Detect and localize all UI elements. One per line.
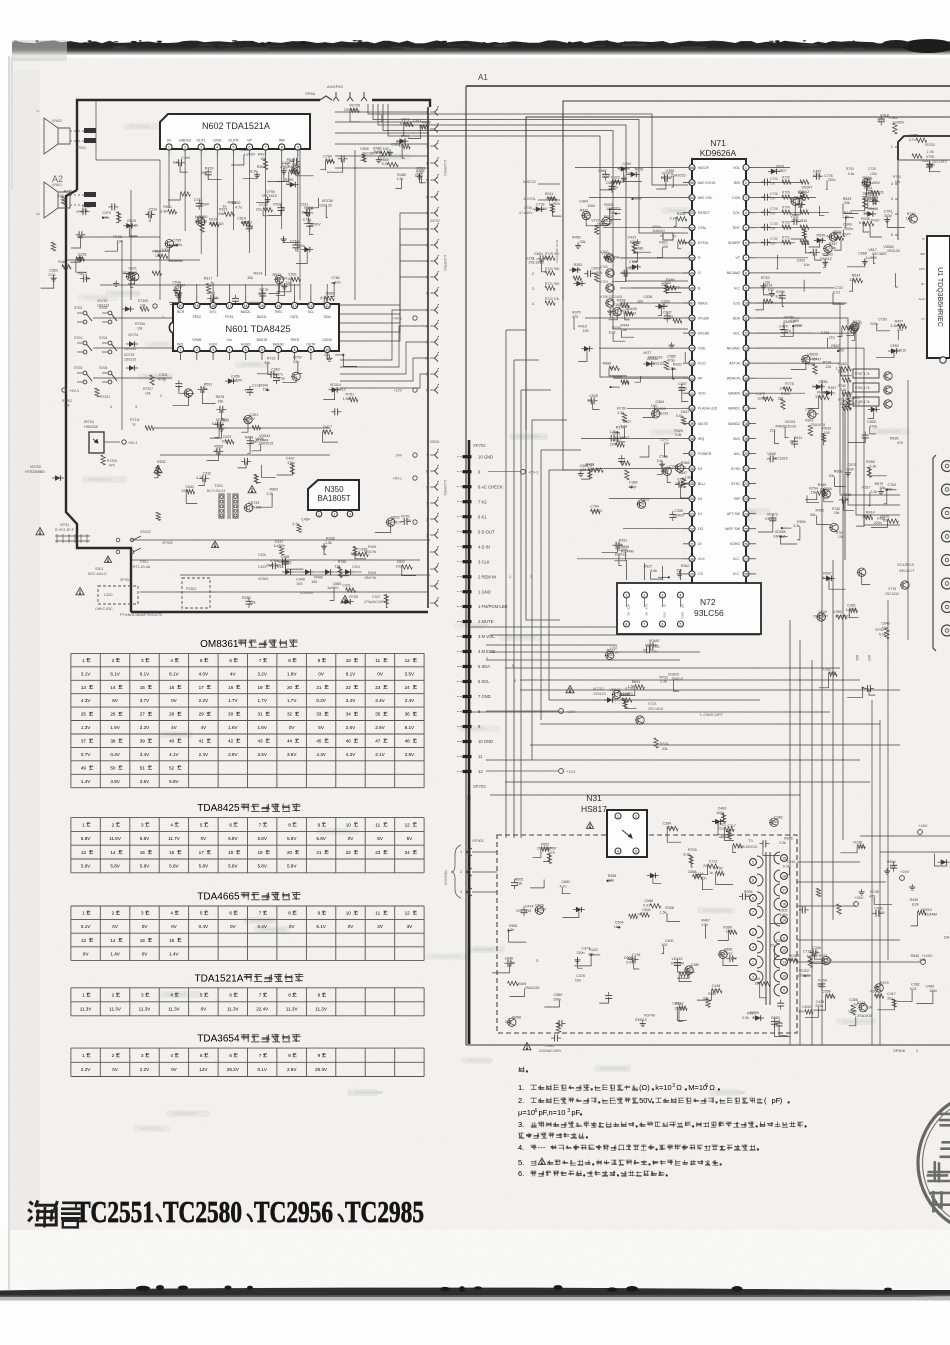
svg-text:R366: R366 — [681, 461, 690, 465]
svg-text:VD0064: VD0064 — [300, 591, 313, 595]
svg-text:R703: R703 — [819, 954, 828, 958]
svg-text:16: 16 — [169, 850, 175, 855]
svg-text:R792: R792 — [876, 628, 885, 632]
svg-text:20: 20 — [287, 850, 293, 855]
svg-text:R484: R484 — [58, 260, 67, 264]
svg-text:M/ECD: M/ECD — [523, 179, 536, 184]
svg-text:470p: 470p — [277, 377, 285, 381]
svg-text:5V: 5V — [377, 836, 384, 841]
svg-text:100n: 100n — [870, 172, 878, 176]
svg-text:R392: R392 — [798, 191, 807, 195]
svg-text:4.7u: 4.7u — [560, 884, 567, 888]
svg-text:5: 5 — [426, 373, 428, 377]
svg-text:10n: 10n — [804, 263, 810, 267]
svg-text:C667: C667 — [598, 169, 607, 173]
svg-text:R450: R450 — [572, 236, 581, 240]
svg-text:17: 17 — [228, 304, 232, 308]
svg-text:EM01Z: EM01Z — [820, 257, 832, 261]
svg-text:5.6k: 5.6k — [623, 380, 630, 384]
svg-text:1u/50V: 1u/50V — [893, 121, 905, 125]
svg-text:R718 390 VD701: R718 390 VD701 — [555, 240, 559, 263]
svg-text:33k: 33k — [218, 212, 224, 216]
svg-text:K1: K1 — [698, 512, 702, 516]
svg-text:7: 7 — [745, 256, 747, 260]
svg-text:C411: C411 — [342, 583, 350, 587]
svg-text:C575: C575 — [848, 463, 857, 467]
svg-text:22k: 22k — [826, 365, 832, 369]
svg-text:KDC-A04-G: KDC-A04-G — [88, 572, 107, 576]
svg-text:C458: C458 — [281, 555, 290, 559]
svg-text:C483: C483 — [718, 807, 727, 811]
svg-text:20: 20 — [179, 304, 183, 308]
svg-text:22k: 22k — [626, 172, 632, 176]
svg-text:C470: C470 — [779, 324, 788, 328]
svg-text:1.5k: 1.5k — [829, 246, 836, 250]
svg-text:4: 4 — [680, 594, 682, 598]
svg-text:8: 8 — [752, 879, 754, 883]
svg-text:1 GND: 1 GND — [478, 589, 491, 594]
svg-text:TRER: TRER — [290, 338, 300, 342]
svg-text:KS601: KS601 — [52, 183, 62, 187]
svg-text:15: 15 — [140, 938, 146, 943]
svg-text:1u/50V: 1u/50V — [244, 417, 256, 421]
svg-text:BCY=03-04: BCY=03-04 — [207, 489, 225, 493]
svg-text:+12V: +12V — [394, 389, 403, 393]
svg-text:2SC3807: 2SC3807 — [835, 615, 850, 619]
svg-text:11.3V: 11.3V — [315, 1007, 328, 1012]
svg-text:EXTAL: EXTAL — [698, 241, 709, 245]
svg-text:1u/50V: 1u/50V — [673, 514, 685, 518]
svg-text:470p: 470p — [287, 461, 295, 465]
svg-text:R7201: R7201 — [100, 395, 110, 399]
svg-text:C719: C719 — [867, 195, 876, 199]
svg-text:VD731: VD731 — [128, 333, 138, 337]
svg-text:2SA1015: 2SA1015 — [209, 222, 224, 226]
svg-text:2: 2 — [486, 657, 488, 661]
svg-text:15: 15 — [140, 685, 146, 690]
svg-text:C672: C672 — [660, 437, 669, 441]
svg-text:9: 9 — [318, 911, 321, 916]
svg-text:18: 18 — [782, 875, 786, 879]
svg-text:8: 8 — [281, 146, 283, 150]
svg-text:26: 26 — [110, 712, 116, 717]
svg-text:PTH451C4636F7ROO270: PTH451C4636F7ROO270 — [120, 613, 162, 617]
svg-text:220n: 220n — [815, 1004, 823, 1008]
svg-text:3: 3 — [460, 890, 462, 894]
svg-text:40: 40 — [690, 407, 694, 411]
svg-text:EM01Z: EM01Z — [774, 534, 786, 538]
svg-text:13: 13 — [293, 304, 297, 308]
svg-text:R621: R621 — [659, 240, 668, 244]
svg-text:51: 51 — [140, 765, 146, 770]
svg-text:TC2985: TC2985 — [345, 1194, 424, 1229]
svg-text:3.1V: 3.1V — [81, 671, 91, 676]
svg-text:Ω: Ω — [676, 1083, 682, 1092]
svg-text:C564: C564 — [580, 464, 589, 468]
svg-text:0.4V: 0.4V — [110, 752, 120, 757]
svg-text:C400: C400 — [665, 939, 674, 943]
svg-text:R532: R532 — [273, 202, 282, 206]
svg-text:R400: R400 — [314, 575, 323, 579]
svg-text:BAND2: BAND2 — [728, 422, 740, 426]
svg-text:R755: R755 — [612, 326, 621, 330]
svg-text:NC: NC — [645, 612, 649, 616]
svg-text:11: 11 — [375, 658, 380, 663]
svg-text:43: 43 — [690, 362, 694, 366]
svg-text:1u/50V: 1u/50V — [309, 222, 321, 226]
svg-text:2SA1015: 2SA1015 — [266, 563, 281, 567]
svg-text:+9V-1: +9V-1 — [128, 441, 138, 445]
svg-text:2 MUTE: 2 MUTE — [478, 619, 494, 624]
svg-text:13: 13 — [81, 850, 87, 855]
svg-text:6.: 6. — [518, 1169, 524, 1178]
svg-text:15k: 15k — [874, 986, 880, 990]
svg-text:3: 3 — [141, 658, 144, 663]
svg-text:2.6V: 2.6V — [287, 1067, 297, 1072]
svg-text:R348: R348 — [843, 493, 852, 497]
svg-text:R376: R376 — [784, 837, 793, 841]
svg-text:R529: R529 — [127, 219, 136, 223]
svg-text:7: 7 — [277, 348, 279, 352]
svg-text:R687: R687 — [708, 992, 717, 996]
svg-text:31: 31 — [257, 712, 263, 717]
svg-text:23: 23 — [375, 850, 381, 855]
svg-text:3: 3 — [141, 822, 144, 827]
svg-text:R595: R595 — [890, 437, 899, 441]
svg-text:R397: R397 — [828, 386, 837, 390]
svg-text:8: 8 — [288, 822, 291, 827]
svg-text:4V: 4V — [201, 725, 208, 730]
svg-text:POWER: POWER — [698, 452, 712, 456]
svg-text:VP: VP — [247, 139, 252, 143]
svg-text:8: 8 — [426, 470, 428, 474]
svg-text:SOURCE: SOURCE — [897, 562, 914, 567]
svg-text:6 SCL: 6 SCL — [478, 679, 490, 684]
svg-text:V617: V617 — [868, 248, 876, 252]
svg-text:1: 1 — [426, 502, 428, 506]
svg-text:C438: C438 — [644, 295, 653, 299]
svg-text:100: 100 — [770, 212, 776, 216]
svg-text:1R6/7W: 1R6/7W — [364, 576, 377, 580]
svg-text:S704: S704 — [99, 336, 107, 340]
svg-text:2: 2 — [334, 513, 336, 517]
svg-text:1k: 1k — [210, 281, 214, 285]
svg-text:22: 22 — [346, 850, 352, 855]
svg-text:C519: C519 — [149, 208, 158, 212]
svg-text:10n: 10n — [351, 552, 357, 556]
svg-text:4.7u: 4.7u — [277, 560, 284, 564]
svg-text:VD438: VD438 — [626, 307, 637, 311]
svg-text:SDA: SDA — [324, 315, 332, 319]
svg-text:10n: 10n — [268, 372, 274, 376]
svg-text:6: 6 — [752, 897, 754, 901]
svg-text:BAS2L: BAS2L — [241, 310, 251, 314]
svg-text:AFT SW: AFT SW — [727, 512, 741, 516]
svg-text:VD730: VD730 — [97, 299, 107, 303]
svg-text:100n: 100n — [679, 387, 687, 391]
svg-text:220n: 220n — [577, 951, 585, 955]
svg-text:2SA1015: 2SA1015 — [857, 1014, 872, 1018]
svg-text:3.3k: 3.3k — [870, 465, 877, 469]
svg-text:1k: 1k — [609, 366, 613, 370]
svg-text:R370: R370 — [572, 311, 581, 315]
svg-text:1.6V: 1.6V — [110, 725, 120, 730]
svg-text:1u/50V: 1u/50V — [591, 509, 603, 513]
svg-text:18: 18 — [228, 685, 234, 690]
svg-text:A.U/XP603: A.U/XP603 — [443, 255, 447, 271]
svg-text:R391: R391 — [619, 538, 628, 542]
svg-text:1.5k: 1.5k — [684, 475, 691, 479]
svg-text:1u/50V: 1u/50V — [812, 384, 824, 388]
svg-text:11: 11 — [375, 911, 380, 916]
svg-text:2: 2 — [112, 658, 115, 663]
svg-text:AV1: AV1 — [734, 452, 740, 456]
svg-text:JA660A1: JA660A1 — [652, 229, 665, 233]
svg-text:2: 2 — [112, 822, 115, 827]
svg-text:V505: V505 — [360, 147, 368, 151]
svg-text:47: 47 — [375, 739, 381, 744]
svg-text:1.0k: 1.0k — [926, 149, 934, 154]
svg-text:3: 3 — [891, 197, 893, 201]
svg-text:1u/50V: 1u/50V — [535, 908, 547, 912]
svg-text:5.6k: 5.6k — [650, 569, 657, 573]
svg-text:30: 30 — [228, 712, 234, 717]
svg-text:10: 10 — [346, 911, 352, 916]
svg-text:7: 7 — [259, 1053, 262, 1058]
svg-text:R542: R542 — [287, 158, 296, 162]
svg-text:+9V-1: +9V-1 — [850, 402, 860, 406]
svg-text:6: 6 — [426, 389, 428, 393]
svg-text:EM01Z: EM01Z — [661, 176, 673, 180]
svg-text:5: 5 — [200, 658, 203, 663]
svg-text:16: 16 — [782, 903, 786, 907]
svg-text:VSS: VSS — [698, 347, 706, 351]
svg-text:+24V: +24V — [566, 709, 576, 714]
svg-text:+9V-1: +9V-1 — [69, 389, 79, 393]
svg-text:C581: C581 — [889, 116, 898, 120]
svg-text:8: 8 — [288, 993, 291, 998]
svg-text:50: 50 — [690, 256, 694, 260]
svg-text:S.ID: S.ID — [733, 301, 740, 305]
svg-text:C729: C729 — [303, 218, 312, 222]
svg-text:39: 39 — [690, 422, 694, 426]
svg-text:52: 52 — [690, 226, 694, 230]
svg-text:24: 24 — [405, 685, 411, 690]
svg-text:4: 4 — [170, 822, 173, 827]
svg-text:220n: 220n — [794, 324, 802, 328]
svg-text:9: 9 — [745, 287, 747, 291]
svg-text:5 SDA: 5 SDA — [478, 664, 490, 669]
svg-text:C504: C504 — [615, 921, 624, 925]
svg-text:A1: A1 — [478, 73, 488, 82]
svg-text:+26V: +26V — [854, 895, 864, 900]
svg-text:C301: C301 — [159, 373, 168, 377]
svg-text:5: 5 — [245, 348, 247, 352]
svg-text:12: 12 — [405, 911, 411, 916]
svg-text:C728: C728 — [770, 207, 778, 211]
svg-text:100: 100 — [770, 182, 776, 186]
svg-text:R310: R310 — [673, 362, 682, 366]
svg-text:3: 3 — [141, 911, 144, 916]
svg-text:C682: C682 — [562, 880, 571, 884]
svg-text:C603: C603 — [591, 266, 600, 270]
svg-text:10k: 10k — [753, 1016, 759, 1020]
svg-text:C724: C724 — [770, 177, 778, 181]
svg-text:C457: C457 — [678, 382, 687, 386]
svg-text:C323: C323 — [611, 175, 620, 179]
svg-text:R411: R411 — [545, 192, 553, 196]
svg-text:V344: V344 — [662, 281, 670, 285]
svg-text:T3: T3 — [748, 838, 753, 843]
svg-text:8.2k: 8.2k — [606, 219, 613, 223]
svg-text:100n: 100n — [553, 997, 561, 1001]
svg-text:3.4V: 3.4V — [375, 698, 385, 703]
svg-text:VT19: VT19 — [888, 587, 896, 591]
svg-text:0V: 0V — [318, 671, 325, 676]
svg-text:0V: 0V — [289, 924, 296, 929]
svg-text:RF: RF — [698, 377, 703, 381]
svg-text:V702: V702 — [600, 250, 608, 254]
svg-text:2SC3807: 2SC3807 — [846, 396, 861, 400]
svg-text:R253: R253 — [925, 142, 935, 147]
svg-text:0.01: 0.01 — [222, 439, 229, 443]
svg-text:5: 5 — [200, 822, 203, 827]
svg-text:52: 52 — [169, 765, 175, 770]
svg-text:3: 3 — [135, 405, 137, 409]
svg-text:1: 1 — [82, 822, 85, 827]
svg-text:R452: R452 — [816, 509, 825, 513]
svg-text:1: 1 — [752, 961, 754, 965]
svg-text:10 GND: 10 GND — [478, 739, 493, 744]
svg-text:V644: V644 — [818, 610, 826, 614]
svg-text:C632: C632 — [922, 159, 931, 163]
svg-text:VD733: VD733 — [248, 501, 259, 505]
svg-text:R474: R474 — [880, 981, 889, 985]
svg-text:10n: 10n — [657, 459, 663, 463]
svg-text:2SA1015: 2SA1015 — [810, 423, 825, 427]
svg-text:4.7u: 4.7u — [407, 123, 414, 127]
svg-text:8.1V: 8.1V — [346, 671, 356, 676]
svg-text:22: 22 — [346, 685, 352, 690]
svg-text:BAND0: BAND0 — [728, 392, 740, 396]
svg-text:R726: R726 — [349, 595, 358, 599]
svg-text:38: 38 — [690, 437, 694, 441]
svg-text:4.: 4. — [518, 1143, 524, 1152]
svg-text:2: 2 — [112, 993, 115, 998]
svg-text:XP6A: XP6A — [305, 91, 316, 96]
svg-text:HS0038: HS0038 — [84, 425, 98, 429]
svg-text:C384: C384 — [663, 822, 672, 826]
svg-text:N350: N350 — [324, 485, 344, 494]
svg-text:25: 25 — [744, 527, 748, 531]
svg-text:2: 2 — [532, 272, 534, 276]
svg-text:0.01: 0.01 — [676, 414, 683, 418]
svg-text:33k: 33k — [516, 882, 522, 886]
svg-text:L702: L702 — [610, 646, 618, 650]
svg-text:13: 13 — [81, 685, 87, 690]
svg-text:R679: R679 — [875, 482, 884, 486]
svg-text:49: 49 — [81, 765, 87, 770]
svg-text:100: 100 — [768, 288, 774, 292]
svg-text:10: 10 — [744, 302, 748, 306]
svg-text:4.7u: 4.7u — [784, 329, 791, 333]
svg-text:7: 7 — [259, 658, 262, 663]
svg-text:1u/50V: 1u/50V — [198, 202, 210, 206]
svg-text:R479: R479 — [288, 165, 297, 169]
svg-text:3: 3 — [536, 959, 538, 963]
svg-text:C721: C721 — [652, 645, 660, 649]
svg-text:10n: 10n — [575, 979, 581, 983]
svg-text:5.8V: 5.8V — [169, 779, 179, 784]
svg-text:C306: C306 — [258, 553, 266, 557]
svg-text:BAND1: BAND1 — [728, 407, 740, 411]
svg-text:19: 19 — [195, 304, 199, 308]
svg-text:1k: 1k — [301, 211, 305, 215]
svg-text:30: 30 — [690, 557, 694, 561]
svg-text:23: 23 — [375, 685, 381, 690]
svg-text:R778: R778 — [260, 288, 269, 292]
svg-text:21: 21 — [316, 850, 322, 855]
svg-text:4: 4 — [228, 348, 230, 352]
svg-text:470p: 470p — [869, 425, 877, 429]
svg-text:470p: 470p — [628, 485, 636, 489]
svg-text:5.8V: 5.8V — [228, 836, 238, 841]
svg-text:22.4V: 22.4V — [256, 1007, 269, 1012]
svg-text:29: 29 — [199, 712, 205, 717]
svg-text:X5001: X5001 — [430, 440, 440, 444]
svg-text:C389: C389 — [629, 481, 638, 485]
svg-text:0.01: 0.01 — [604, 173, 611, 177]
svg-text:8: 8 — [745, 272, 747, 276]
svg-text:10k: 10k — [852, 326, 858, 330]
svg-text:R678: R678 — [635, 168, 644, 172]
svg-text:22k: 22k — [770, 429, 776, 433]
svg-text:0.01: 0.01 — [833, 290, 840, 294]
svg-text:18: 18 — [211, 304, 215, 308]
svg-text:N.C.: N.C. — [733, 557, 740, 561]
svg-text:2200/AC400V: 2200/AC400V — [539, 1049, 562, 1053]
svg-text:R7211: R7211 — [130, 418, 140, 422]
svg-text:10k: 10k — [155, 254, 161, 258]
svg-text:2: 2 — [644, 594, 646, 598]
svg-text:0.01: 0.01 — [829, 672, 836, 676]
svg-text:R406: R406 — [776, 290, 785, 294]
svg-text:38: 38 — [110, 739, 116, 744]
svg-text:8.2k: 8.2k — [862, 515, 869, 519]
svg-text:C609: C609 — [641, 497, 650, 501]
svg-text:SELECT: SELECT — [899, 568, 915, 573]
svg-text:1: 1 — [82, 911, 85, 916]
svg-text:9: 9 — [426, 486, 428, 490]
svg-text:---: --- — [538, 1143, 546, 1152]
svg-text:C505: C505 — [779, 909, 788, 913]
svg-text:V390: V390 — [833, 610, 841, 614]
svg-text:C380: C380 — [691, 963, 700, 967]
svg-text:R604: R604 — [797, 520, 806, 524]
svg-text:VT: VT — [921, 317, 925, 321]
svg-text:HS817: HS817 — [581, 804, 607, 814]
svg-text:44: 44 — [690, 347, 694, 351]
svg-text:R720 390: R720 390 — [545, 267, 559, 271]
svg-text:R633: R633 — [273, 273, 282, 277]
svg-text:41: 41 — [199, 739, 205, 744]
svg-text:R417: R417 — [323, 425, 332, 429]
svg-text:μ=10: μ=10 — [518, 1108, 535, 1117]
svg-text:2.4V: 2.4V — [199, 752, 209, 757]
svg-text:8.1V: 8.1V — [169, 671, 179, 676]
svg-text:3.3k: 3.3k — [617, 411, 624, 415]
svg-text:R444: R444 — [621, 324, 630, 328]
